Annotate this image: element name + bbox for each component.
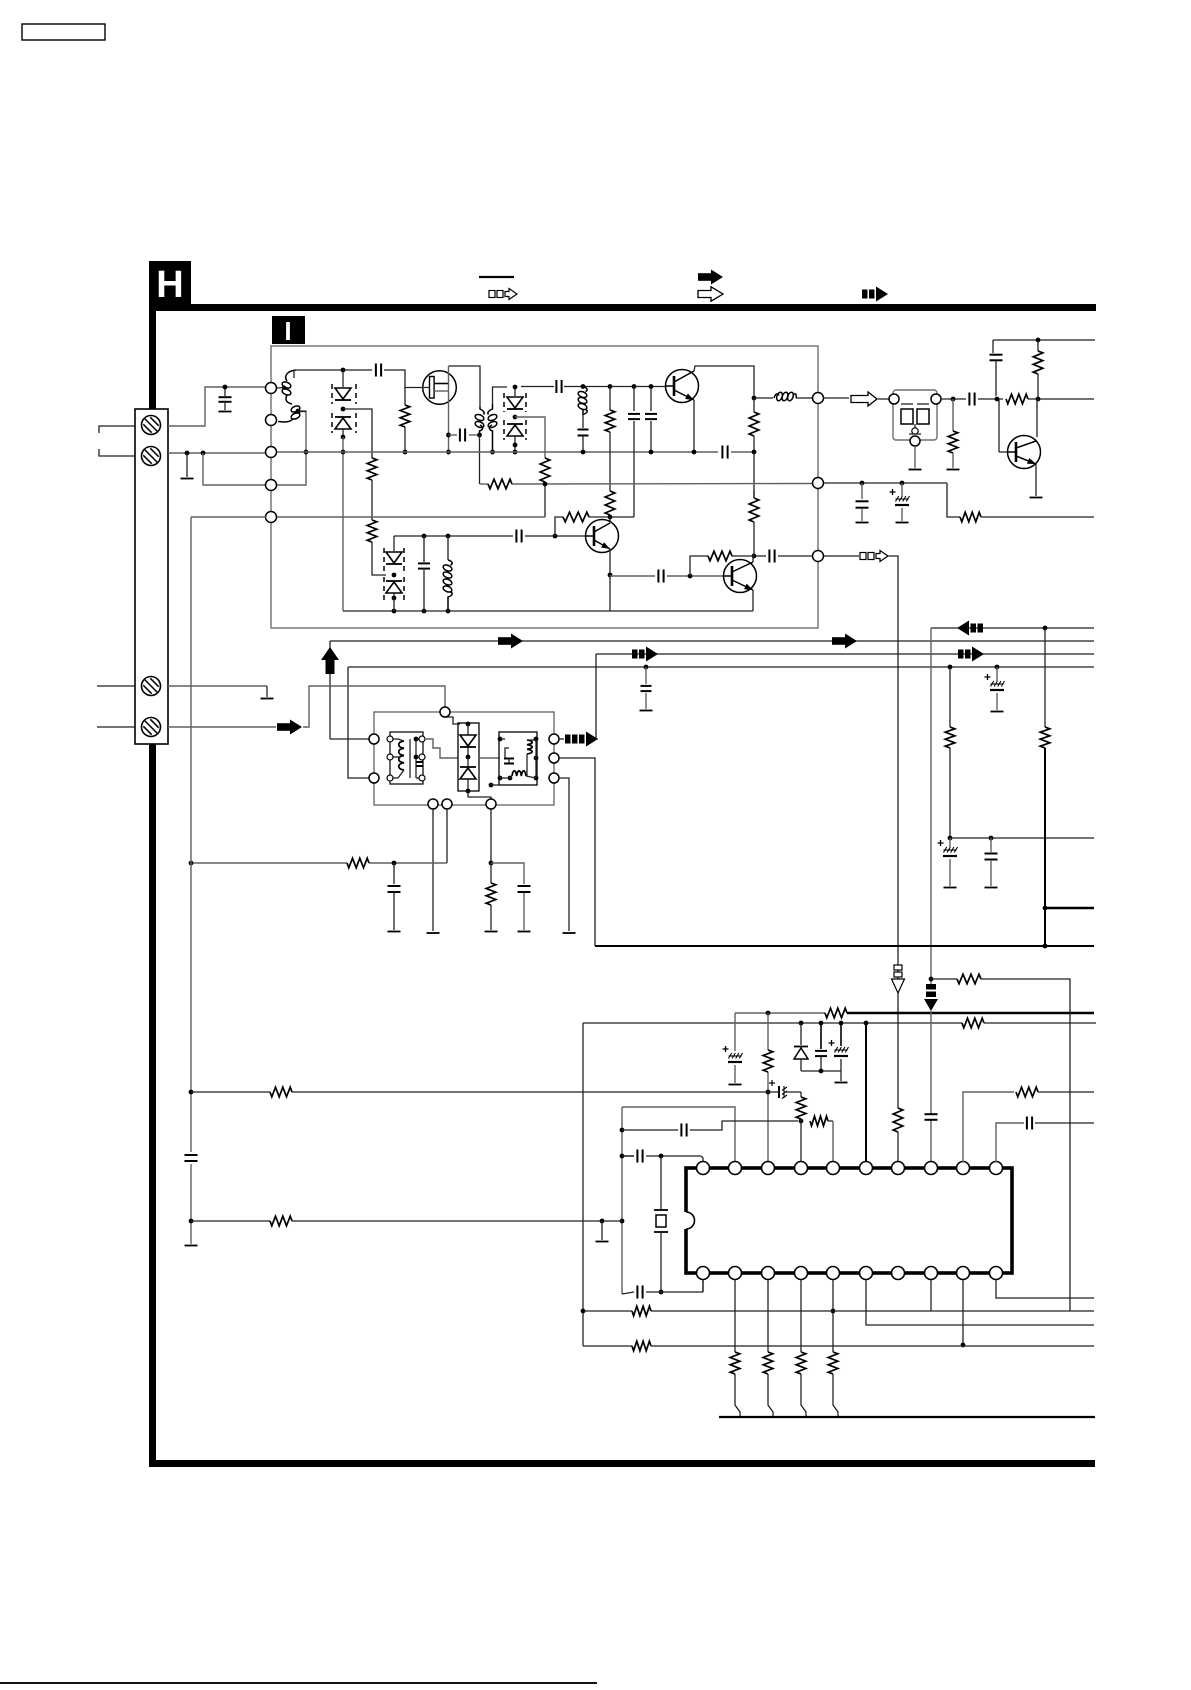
wire top bias bbox=[993, 339, 1095, 341]
emitter wire bbox=[752, 590, 754, 611]
node junction bbox=[392, 609, 397, 614]
wire y1092 row bbox=[191, 1091, 270, 1093]
filter pin bottom bbox=[910, 436, 920, 446]
feedback resistor R10 bbox=[690, 556, 708, 576]
node junction bbox=[296, 409, 301, 414]
wire row4 bbox=[348, 666, 1094, 668]
module pin right3 bbox=[549, 773, 559, 783]
tuner right pin2 bbox=[813, 478, 824, 489]
wire to bus bbox=[768, 1374, 773, 1417]
schematic border left lower bbox=[149, 744, 156, 1467]
ic pin 5 top bbox=[827, 1162, 840, 1175]
node junction bbox=[1043, 944, 1048, 949]
resistor R25 bbox=[810, 1116, 828, 1126]
wire row4 stem bbox=[348, 667, 369, 778]
wire pin8 bottom bbox=[930, 1280, 932, 1311]
tuner pin 4 bbox=[266, 480, 277, 491]
capacitor C28 series bbox=[636, 1286, 638, 1299]
ceramic filter CF1 bbox=[893, 390, 937, 440]
node junction bbox=[951, 397, 956, 402]
legend solid arrow bbox=[698, 273, 711, 281]
wire to agc bus bbox=[404, 427, 406, 452]
resistor R15 bbox=[1037, 340, 1039, 351]
node junction bbox=[649, 384, 654, 389]
node junction bbox=[948, 665, 953, 670]
wire to module top bbox=[303, 686, 445, 727]
wire module out2 down bbox=[559, 758, 595, 946]
capacitor C9 series bbox=[657, 570, 659, 583]
ic pin 9 top bbox=[957, 1162, 970, 1175]
capacitor C22 bbox=[820, 1023, 822, 1049]
node junction bbox=[477, 433, 482, 438]
ic pin 8 top bbox=[925, 1162, 938, 1175]
open arrow signal bbox=[851, 392, 877, 406]
ic pin 18 bottom bbox=[762, 1267, 775, 1280]
node junction bbox=[513, 385, 518, 390]
wire pin5 bottom bbox=[832, 1280, 834, 1352]
wire bbox=[981, 979, 1070, 1311]
wire heavy down bbox=[1044, 748, 1046, 946]
ic pin 11 bottom bbox=[990, 1267, 1003, 1280]
node junction bbox=[688, 574, 693, 579]
pcb block top bus bbox=[583, 1022, 962, 1024]
resistor R12 bbox=[488, 479, 512, 489]
capacitor C24 series bbox=[925, 1113, 938, 1115]
resistor R4 bbox=[540, 458, 550, 482]
resistor R16 bbox=[960, 512, 981, 522]
inductor L3 bbox=[447, 536, 449, 560]
balun transformer T1 bbox=[286, 370, 296, 381]
resistor R18 bbox=[1044, 628, 1046, 727]
electrolytic C15 bbox=[901, 483, 903, 496]
capacitor C14 decouple bbox=[861, 483, 863, 499]
wire filter out bbox=[941, 398, 966, 400]
wire agc left rail bbox=[190, 517, 192, 1152]
node junction bbox=[929, 977, 934, 982]
wire to bus bbox=[735, 1374, 740, 1417]
legend dotted open arrow bbox=[489, 291, 495, 298]
wire vcc bottom bbox=[595, 945, 1094, 947]
node junction bbox=[819, 1021, 824, 1026]
wire bbox=[512, 483, 812, 486]
resistor R26 bbox=[800, 1092, 802, 1097]
wire bbox=[646, 1291, 703, 1293]
ic pin 4 top bbox=[795, 1162, 808, 1175]
wire module right3 bbox=[559, 778, 569, 931]
capacitor osc wires bbox=[660, 1155, 662, 1157]
transistor Q2 if amp bbox=[666, 370, 699, 403]
node junction bbox=[553, 534, 558, 539]
page bottom rule bbox=[0, 1682, 597, 1684]
wire rf top bbox=[294, 369, 372, 371]
varactor pair D3 bbox=[393, 536, 395, 551]
wire row y1311 east bbox=[1070, 1310, 1094, 1312]
schematic border bottom bbox=[149, 1460, 1095, 1467]
wire screw1 to pin1 bbox=[168, 387, 266, 426]
electrolytic C26 series bbox=[778, 1086, 780, 1098]
node junction bbox=[620, 1154, 625, 1159]
node junction bbox=[995, 397, 1000, 402]
wire collector bbox=[1036, 399, 1038, 437]
node junction bbox=[422, 534, 427, 539]
capacitor C7 bbox=[650, 387, 652, 412]
schematic border top bbox=[151, 304, 1096, 311]
tuner block outline bbox=[271, 346, 818, 628]
grid label I bbox=[272, 316, 305, 344]
node junction bbox=[961, 1343, 966, 1348]
module rf parts bbox=[505, 748, 509, 758]
wire bbox=[525, 535, 586, 537]
node junction bbox=[799, 1119, 804, 1124]
arrow left dotted bbox=[957, 621, 969, 636]
lead terminal3 external bbox=[97, 685, 135, 687]
ground bus bbox=[719, 1416, 1095, 1418]
resistor R17 agc bbox=[949, 667, 951, 727]
node junction bbox=[446, 609, 451, 614]
arrow up bold bbox=[321, 647, 339, 660]
legend open arrow bbox=[698, 287, 723, 301]
wire bbox=[371, 480, 373, 520]
resistor R9 bbox=[563, 512, 589, 522]
module pin top bbox=[440, 707, 450, 717]
arrow solid bbox=[498, 637, 511, 645]
wire b+ heavy east bbox=[847, 1012, 1094, 1015]
arrow down solid bbox=[926, 984, 936, 990]
node junction bbox=[752, 554, 757, 559]
node junction bbox=[839, 1021, 844, 1026]
node junction bbox=[304, 450, 309, 455]
module diode box bbox=[458, 723, 479, 791]
ground stub bbox=[840, 1071, 842, 1081]
wire to bus bbox=[833, 1374, 838, 1417]
resistor R22 bbox=[825, 1008, 847, 1018]
wire xtal bottom bbox=[622, 1292, 634, 1294]
electrolytic C17 bbox=[949, 838, 951, 847]
module outline bbox=[374, 712, 554, 805]
wire screw2 to pin3 bbox=[168, 452, 266, 454]
wire y1130 link bbox=[622, 1129, 678, 1131]
module diode pair bbox=[466, 722, 471, 727]
node junction bbox=[644, 665, 649, 670]
wire b+ stub bbox=[1045, 907, 1094, 910]
rail end bar bbox=[185, 1245, 198, 1247]
node junction bbox=[446, 450, 451, 455]
resistor R21 in top bus bbox=[962, 1018, 984, 1028]
wire row y1311 bbox=[583, 1310, 632, 1312]
node junction bbox=[189, 861, 194, 866]
wire bus end bbox=[731, 451, 754, 453]
wire pin1 bottom bbox=[702, 1280, 704, 1292]
capacitor C29 series bbox=[185, 1154, 198, 1156]
ic pin 14 bottom bbox=[892, 1267, 905, 1280]
node junction bbox=[446, 433, 451, 438]
crystal X1 bbox=[660, 1156, 662, 1209]
wire up arrow stem bbox=[329, 641, 331, 739]
osc ground rail bbox=[343, 610, 753, 612]
node junction bbox=[948, 836, 953, 841]
capacitor C2 series bbox=[375, 364, 377, 377]
svg-text:I: I bbox=[284, 316, 291, 346]
lead terminal1 external bbox=[99, 426, 135, 433]
electrolytic C23 bbox=[840, 1023, 842, 1046]
resistor R6 bbox=[605, 491, 615, 515]
ic pin 13 bottom bbox=[925, 1267, 938, 1280]
filter ground bbox=[914, 446, 916, 468]
node junction bbox=[446, 534, 451, 539]
electrolytic C16 bbox=[996, 667, 998, 681]
transistor Q4 osc buffer bbox=[724, 560, 757, 593]
node junction bbox=[201, 451, 206, 456]
module inner pin bbox=[419, 736, 425, 742]
resistor R33 bbox=[796, 1352, 806, 1374]
node junction bbox=[189, 1090, 194, 1095]
ic pin 3 top bbox=[762, 1162, 775, 1175]
varactor pair D2 bbox=[514, 387, 516, 396]
node junction bbox=[799, 1021, 804, 1026]
tuner right pin3 bbox=[813, 551, 824, 562]
wire to bus bbox=[801, 1374, 806, 1417]
filter pin left bbox=[889, 394, 899, 404]
grid label H bbox=[149, 261, 191, 304]
resistor R8 bbox=[749, 498, 759, 522]
wire T2 right top bbox=[493, 387, 508, 404]
ic pin 17 bottom bbox=[795, 1267, 808, 1280]
capacitor C19 bbox=[393, 863, 395, 884]
inductor L1 with cap to bus bbox=[583, 387, 587, 392]
resistor R28 bbox=[270, 1216, 292, 1226]
wire pin5 west bbox=[191, 516, 266, 518]
wire pin9 riser bbox=[963, 1092, 1014, 1162]
emitter wire bbox=[693, 400, 695, 452]
pcb block outline left bbox=[582, 1023, 584, 1346]
gate lead bbox=[405, 387, 430, 389]
transistor Q3 osc bbox=[586, 520, 619, 553]
capacitor C1 to ground bbox=[224, 387, 226, 396]
filter pin right bbox=[931, 394, 941, 404]
wire bend to agc bbox=[947, 483, 960, 517]
module pin right1 bbox=[549, 734, 559, 744]
wire varactor bottom down bbox=[342, 437, 344, 611]
ic pin 19 bottom bbox=[729, 1267, 742, 1280]
capacitor C13 bbox=[992, 340, 994, 353]
screw terminal 2 bbox=[142, 447, 161, 466]
collector wire bbox=[752, 556, 754, 562]
wire module out up bbox=[596, 654, 598, 739]
transformer T2 bbox=[480, 407, 484, 415]
module wire top pin to diode bbox=[445, 717, 460, 724]
resistor R20 bbox=[490, 863, 492, 883]
ground stub bbox=[601, 1221, 603, 1240]
ic pin 15 bottom bbox=[860, 1267, 873, 1280]
capacitor C4 series in bus bbox=[721, 446, 723, 459]
screw terminal 3 bbox=[142, 677, 161, 696]
node junction bbox=[766, 1011, 771, 1016]
resistor R30 bbox=[957, 974, 981, 984]
wire module bottom1 bbox=[432, 809, 434, 931]
node junction bbox=[403, 450, 408, 455]
wire pin7 lower bbox=[897, 1132, 899, 1162]
ic pin 20 bottom bbox=[697, 1267, 710, 1280]
resistor R5 bbox=[609, 387, 611, 411]
tuner pin 1 bbox=[266, 383, 277, 394]
module pin bottom2 bbox=[442, 799, 452, 809]
ic pin 2 top bbox=[729, 1162, 742, 1175]
tuner pin 2 bbox=[266, 415, 277, 426]
node junction bbox=[223, 385, 228, 390]
resistor R35 bbox=[632, 1306, 651, 1316]
resistor R34 bbox=[828, 1352, 838, 1374]
resistor R3 bbox=[400, 405, 410, 427]
wire loop to pin4 bbox=[203, 453, 266, 485]
node junction bbox=[995, 665, 1000, 670]
wire bbox=[589, 516, 608, 518]
resistor R1 bbox=[367, 458, 377, 480]
capacitor C10 bbox=[423, 536, 425, 562]
capacitor C31 to ground bbox=[645, 667, 647, 684]
wire T1 top to rf bbox=[293, 370, 295, 378]
node junction bbox=[489, 861, 494, 866]
svg-text:H: H bbox=[156, 264, 183, 306]
resistor R27 bbox=[270, 1087, 292, 1097]
module pin bottom1 bbox=[428, 799, 438, 809]
wire pin5 rail bbox=[277, 516, 545, 518]
wire pin6 riser bbox=[865, 1023, 867, 1162]
wire gate bias bbox=[404, 388, 406, 406]
wire up-arrow to module pin bbox=[330, 738, 369, 740]
wire out row bbox=[754, 397, 773, 399]
node junction bbox=[659, 1290, 664, 1295]
lead terminal2 external bbox=[99, 449, 135, 456]
wire row3 bbox=[596, 653, 1094, 655]
output coupling cap C11 bbox=[754, 555, 766, 557]
wire pin8 riser bbox=[930, 1011, 932, 1114]
ic pin 10 top bbox=[990, 1162, 1003, 1175]
screw terminal 1 bbox=[142, 416, 161, 435]
legend dotted solid arrow bbox=[862, 290, 868, 299]
wire pin10 riser bbox=[996, 1123, 1024, 1162]
node junction bbox=[752, 396, 757, 401]
node junction bbox=[620, 1219, 625, 1224]
wire b+ row y483 bbox=[824, 482, 947, 484]
varactor pair D1 bbox=[342, 370, 344, 387]
base wire bbox=[998, 399, 1000, 452]
node junction bbox=[608, 384, 613, 389]
wire pin4 bottom bbox=[800, 1280, 802, 1352]
capacitor C20 bbox=[491, 863, 524, 884]
wire if row bbox=[521, 386, 554, 388]
wire arrow to filter bbox=[878, 398, 889, 400]
resistor R36 bbox=[632, 1341, 651, 1351]
capacitor C30 series bbox=[1026, 1117, 1028, 1130]
module wire diode bottom bbox=[468, 791, 491, 800]
resistor R24 bbox=[763, 1050, 773, 1072]
wire if row2 bbox=[564, 386, 672, 388]
tuner pin 3 bbox=[266, 447, 277, 458]
wire mixer down bbox=[930, 628, 932, 984]
node junction bbox=[581, 1309, 586, 1314]
connector housing CN1 bbox=[135, 409, 168, 744]
wire T2 left bottom down bbox=[479, 435, 481, 484]
inductor L2 bbox=[774, 394, 779, 398]
module pin left2 bbox=[369, 773, 379, 783]
capacitor C25 series bbox=[680, 1124, 682, 1137]
wire pin1 input bbox=[623, 1155, 634, 1157]
wire pin9 bottom bbox=[962, 1280, 964, 1345]
coupling capacitor C3 bbox=[449, 434, 458, 436]
wire pin4 to balun bbox=[277, 411, 306, 485]
node junction bbox=[581, 384, 586, 389]
schematic border left upper bbox=[149, 304, 156, 416]
screw terminal 4 bbox=[142, 718, 161, 737]
wire gnd link bbox=[801, 1070, 841, 1072]
emitter wire bbox=[609, 549, 611, 575]
node junction bbox=[632, 384, 637, 389]
node junction bbox=[392, 861, 397, 866]
wire jog bbox=[690, 1121, 798, 1130]
wire pin to arrow bbox=[824, 397, 849, 399]
ic pin 1 top bbox=[697, 1162, 710, 1175]
collector wire bbox=[694, 366, 754, 398]
wire pin10 bottom bbox=[996, 1280, 1094, 1298]
capacitor C27 series bbox=[636, 1150, 638, 1163]
electrolytic C21 bbox=[734, 1013, 736, 1051]
wire pin3 riser bbox=[767, 1013, 769, 1050]
ground stub bbox=[186, 453, 188, 477]
wire if out to mixer bbox=[824, 555, 859, 557]
wire if out row y483 bbox=[480, 483, 489, 485]
wire pin6 bottom bbox=[866, 1280, 1094, 1325]
module wire step bbox=[426, 739, 458, 758]
module rf box bbox=[499, 732, 537, 785]
node junction bbox=[1036, 397, 1041, 402]
ic pin 12 bottom bbox=[957, 1267, 970, 1280]
wire b+ heavy bbox=[735, 1012, 825, 1014]
transistor Q5 buffer bbox=[1008, 436, 1041, 469]
resistor R19 bbox=[347, 858, 369, 868]
arrow solid bbox=[277, 723, 290, 731]
node junction bbox=[185, 451, 190, 456]
tuner right pin1 bbox=[813, 393, 824, 404]
capacitor C18 bbox=[990, 838, 992, 852]
ic body U1 bbox=[686, 1168, 1012, 1273]
wire module bottom2 riser bbox=[446, 809, 448, 863]
wire y1221 row bbox=[191, 1220, 270, 1222]
arrow dotted solid bbox=[632, 650, 638, 659]
collector resistor R11 output bbox=[753, 490, 755, 498]
mosfet source wire bbox=[448, 366, 450, 452]
ic notch bbox=[682, 1212, 690, 1229]
wire agc bus bbox=[277, 451, 718, 453]
node junction bbox=[189, 1219, 194, 1224]
module pin bottom3 bbox=[486, 799, 496, 809]
node junction bbox=[864, 1021, 869, 1026]
wire base r chain bbox=[555, 517, 563, 536]
wire agc row y863 bbox=[191, 862, 347, 864]
node junction bbox=[989, 836, 994, 841]
wire vif row bbox=[931, 627, 1094, 629]
wire xtal top bbox=[622, 1155, 634, 1157]
mosfet drain wire bbox=[449, 366, 481, 407]
capacitor C5 series bbox=[555, 380, 557, 393]
wire screw4 to module bbox=[168, 726, 276, 728]
node junction bbox=[341, 450, 346, 455]
emitter to next base bbox=[610, 575, 655, 577]
resistor R13 to ground bbox=[952, 399, 954, 431]
module inner pin bbox=[387, 775, 393, 781]
arrow dotted solid bbox=[958, 650, 964, 659]
ic pin 7 top bbox=[892, 1162, 905, 1175]
wire pin2 riser bbox=[622, 1107, 735, 1162]
